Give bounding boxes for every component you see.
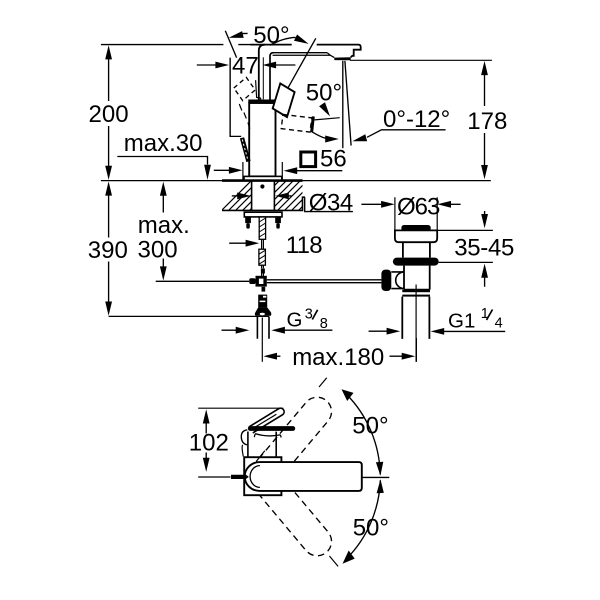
pop-up rod clamp knob (381, 270, 391, 291)
svg-text:390: 390 (88, 237, 128, 264)
countertop bottom edge with notch (222, 197, 305, 210)
supply pipe centerline (261, 318, 263, 362)
svg-text:50°: 50° (253, 22, 289, 49)
swivelled spout end cap (solid) (310, 116, 315, 132)
supply connection fitting (G 3/8) (262, 287, 266, 292)
mounting washer plate (244, 212, 282, 217)
svg-text:200: 200 (89, 101, 129, 128)
spout mouth aerator (334, 57, 350, 60)
body top dark band (248, 100, 276, 104)
mounting stud right (275, 217, 281, 223)
swivelled spout dashed (up 50deg) (252, 378, 349, 486)
svg-text:max.180: max.180 (292, 344, 384, 371)
102 bottom reference line (198, 476, 230, 478)
label 50 deg (spout swivel, middle) (306, 80, 342, 117)
horizontal pop-up rod tube (267, 280, 382, 283)
escutcheon square (244, 457, 281, 495)
label 0-12 deg (352, 106, 450, 141)
thin rod links (262, 239, 264, 249)
body sides top view (248, 432, 276, 458)
spout inner cap arc (250, 466, 260, 488)
pop-up rod reference line (156, 280, 250, 282)
small solid lines near body top (256, 80, 261, 99)
mounting stud left (245, 217, 251, 223)
dimension max.30 (117, 130, 211, 180)
thread relief bars (402, 290, 430, 292)
svg-text:Ø63: Ø63 (397, 194, 440, 221)
tailpipe centerline (415, 285, 417, 362)
dimension dia-63 (361, 194, 460, 221)
spout swivel arc with arrow (311, 131, 328, 139)
swivelled spout centerline (315, 118, 340, 120)
svg-text:G1: G1 (448, 309, 475, 332)
lever bar (dark) (248, 426, 295, 431)
svg-text:102: 102 (189, 430, 229, 457)
spout right end profile (351, 45, 361, 58)
svg-text:max.30: max.30 (124, 130, 203, 157)
390 bottom reference line (109, 315, 270, 317)
pop-up side port (391, 272, 404, 289)
dimension 35-45 (437, 211, 514, 287)
svg-text:118: 118 (286, 232, 323, 259)
rotated lever dashed outline (left) (234, 77, 255, 100)
svg-text:35-45: 35-45 (454, 234, 514, 261)
spout arm lower lines (274, 52, 328, 54)
stream direction lines (0-12 deg) (342, 61, 344, 148)
spout outlet reference line (178 level) (350, 59, 492, 61)
dimension 200 (89, 45, 129, 180)
pop-up flange (395, 230, 437, 242)
dimension max.300 (138, 182, 190, 281)
threaded pull rod lower section (259, 249, 266, 265)
square-56 left arrow (214, 169, 231, 171)
cartridge cap arc (254, 434, 281, 438)
dimension max.180 (263, 338, 416, 371)
spout tube top view (245, 462, 362, 491)
svg-text:47: 47 (232, 53, 259, 80)
rotated lever knob (solid) (273, 83, 295, 117)
svg-text:50°: 50° (352, 413, 388, 440)
pop-up neck (403, 242, 430, 257)
svg-text:max.: max. (138, 212, 190, 239)
lever blade top view (249, 408, 284, 433)
pop-up body (404, 266, 430, 290)
top 50-deg arc arrow left (229, 31, 244, 38)
faucet shank through deck (252, 181, 275, 210)
svg-text:Ø34: Ø34 (309, 190, 353, 217)
profile left of mouth (327, 53, 334, 58)
swivelled spout dashed (down 50deg) (252, 467, 349, 575)
label square-56 (284, 145, 347, 174)
lever blade right edge with bend (270, 53, 274, 100)
square-56 extension lines (243, 162, 282, 180)
set screw dot (260, 184, 264, 188)
svg-text:8: 8 (320, 316, 328, 332)
long diagonal rotated-lever centerline (277, 38, 316, 107)
pop-up rod connector (249, 278, 255, 284)
102 top reference line (198, 407, 283, 409)
svg-text:56: 56 (320, 145, 347, 172)
top 50-deg arc arrow right (270, 37, 296, 45)
supply pipe below (257, 317, 269, 339)
rotated lever extension line (left) (225, 31, 236, 58)
swivelled spout (solid, left) (230, 58, 241, 137)
swivelled spout dashed outline (right) (281, 114, 312, 132)
dimension 178 (467, 61, 507, 179)
spout centerline stub (362, 476, 390, 478)
label dia-34 (232, 190, 353, 217)
dimension 47 (197, 53, 296, 137)
lever blade left edge with bend (259, 45, 265, 100)
svg-text:G: G (287, 309, 303, 332)
threaded pull rod upper section (259, 217, 265, 239)
lever blade thin mid line (262, 57, 264, 99)
pivot ear (241, 430, 247, 445)
dimension 102 (189, 409, 229, 472)
label G 3/8 (222, 307, 333, 334)
svg-text:178: 178 (467, 108, 507, 135)
dia-63 extension lines (395, 197, 437, 230)
svg-text:300: 300 (138, 237, 178, 264)
base plate (244, 176, 282, 180)
countertop hatching (214, 178, 338, 218)
dimension 390 (88, 181, 128, 315)
svg-text:50°: 50° (306, 80, 342, 107)
swivel arc upper with arrows (346, 394, 380, 475)
svg-text:4: 4 (495, 316, 503, 332)
top reference line (200 level) (101, 44, 359, 46)
dimension 118 (229, 232, 322, 259)
svg-text:3: 3 (305, 307, 313, 323)
rod coupling piece (261, 269, 265, 274)
dashes toward swivel wedge (239, 104, 250, 129)
detail tick (256, 451, 265, 462)
pop-up O-ring washer (393, 258, 439, 266)
label G1 1/4 (369, 306, 506, 335)
pop-up plug cap (401, 225, 430, 231)
deck line (countertop top) (101, 180, 222, 182)
body column (249, 103, 275, 176)
tailpipe G1 1/4 (402, 297, 429, 339)
swivel arc lower with arrows (347, 480, 381, 559)
pop-up rod top view (dark) (231, 475, 249, 479)
svg-text:50°: 50° (353, 515, 389, 542)
